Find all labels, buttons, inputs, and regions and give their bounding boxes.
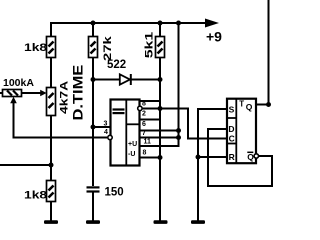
svg-text:150: 150 [105, 187, 124, 199]
svg-text:+U: +U [128, 141, 137, 148]
wire D input ff [207, 128, 227, 130]
potentiometer P 4k7A D.TIME [40, 65, 86, 121]
svg-text:D.TIME: D.TIME [71, 65, 86, 121]
wire 100kA wiper down [13, 102, 15, 139]
wire 100kA left stub [0, 92, 3, 94]
wire wiper to pin4 [13, 137, 108, 139]
wire 27k / diode / pin3 / C150 vertical [92, 22, 94, 186]
arrow +9 [205, 19, 219, 28]
wire pin6 [140, 119, 162, 121]
svg-text:4: 4 [104, 129, 108, 136]
wire pin -U row [140, 157, 162, 159]
svg-text:5k1: 5k1 [143, 31, 155, 58]
wire Qbar to loop [259, 155, 273, 157]
wire 5k1 vertical down to ground [159, 22, 161, 221]
flip-flop U2 box [227, 99, 256, 164]
internal capacitor symbol [113, 108, 125, 110]
node pin3 [91, 125, 96, 130]
wire C input ff [187, 138, 227, 140]
svg-text:7: 7 [142, 130, 146, 137]
svg-text:6: 6 [142, 121, 146, 128]
wire diode row [93, 79, 160, 81]
wire pin +U row [140, 145, 180, 147]
resistor R 1k8 bottom [24, 181, 56, 202]
pin 4 bubble [108, 135, 112, 139]
svg-text:3: 3 [104, 120, 108, 127]
wire S input ff [197, 108, 227, 110]
node top rail x93 [91, 21, 96, 26]
wire clock vertical x188 [187, 108, 189, 140]
resistor R 1k8 top [24, 37, 56, 58]
svg-text:S: S [229, 105, 235, 115]
svg-text:1k8: 1k8 [24, 189, 47, 201]
svg-text:T: T [239, 100, 244, 109]
svg-text:D: D [228, 124, 234, 134]
node pin11/x178 [176, 135, 181, 140]
capacitor C 150 [87, 186, 124, 198]
svg-text:Q: Q [247, 152, 254, 162]
wire R input ff [198, 156, 227, 158]
wire C150 to ground [92, 191, 94, 221]
resistor R 27k [89, 35, 114, 61]
wire 100kA to 4k7A arrow [22, 92, 41, 94]
node Q output [266, 102, 271, 107]
svg-text:C: C [229, 134, 235, 144]
svg-text:8: 8 [142, 101, 146, 108]
ground 3 [154, 220, 168, 224]
wire right edge vertical from top [268, 0, 270, 105]
wire S vertical x198 [197, 108, 199, 221]
wire D vertical x208 [207, 128, 209, 187]
wire Q output [256, 104, 269, 106]
resistor R 5k1 [143, 31, 165, 58]
svg-text:1k8: 1k8 [24, 41, 47, 53]
ground 1 [44, 220, 58, 224]
wire bottom 1k8 to ground [50, 201, 52, 221]
node S/R/ground x198 [196, 155, 201, 160]
svg-text:2: 2 [142, 110, 146, 117]
svg-text:11: 11 [144, 138, 152, 145]
node pin7/x178 [176, 128, 181, 133]
pin 2 bubble [138, 106, 142, 110]
wire top rail +9 [51, 22, 208, 24]
svg-text:+9: +9 [206, 29, 222, 45]
diode D 522 [107, 59, 131, 85]
node top rail x160 [158, 21, 163, 26]
wire 4k7A to bottom 1k8 [50, 115, 52, 202]
wire top branch at x178 [178, 22, 180, 146]
svg-text:4k7A: 4k7A [58, 81, 70, 114]
node 4k7A/1k8 junction [49, 163, 54, 168]
node -U/ground x160 [158, 155, 163, 160]
wire 1k8 top branch [50, 22, 52, 88]
node diode right [158, 77, 163, 82]
wire pin11 [140, 137, 179, 139]
svg-text:27k: 27k [101, 35, 114, 61]
wire left edge to node [0, 164, 51, 166]
wire pin8 top [140, 100, 160, 102]
IC U1 timer box [111, 100, 140, 166]
svg-text:Q: Q [246, 102, 253, 112]
svg-text:8: 8 [143, 149, 147, 156]
svg-text:522: 522 [107, 59, 126, 71]
wire loop bottom [207, 185, 272, 187]
Qbar bubble [254, 154, 258, 158]
svg-text:100kA: 100kA [3, 77, 34, 89]
node diode left [91, 77, 96, 82]
wire pin3 [93, 126, 111, 128]
wiper arrowhead of 100kA [10, 97, 17, 103]
svg-text:R: R [229, 152, 235, 162]
svg-text:-U: -U [128, 151, 135, 158]
ground 2 [86, 220, 100, 224]
node top rail x178 [176, 21, 181, 26]
wire loop right vertical [271, 155, 273, 187]
wire pin2 to clock corner [143, 108, 189, 110]
ground 4 [191, 220, 205, 224]
wire pin7 [140, 130, 179, 132]
wiper arrowhead into 4k7A [40, 90, 46, 97]
potentiometer P 100kA [3, 77, 35, 103]
node pin2/5k1 [158, 106, 163, 111]
